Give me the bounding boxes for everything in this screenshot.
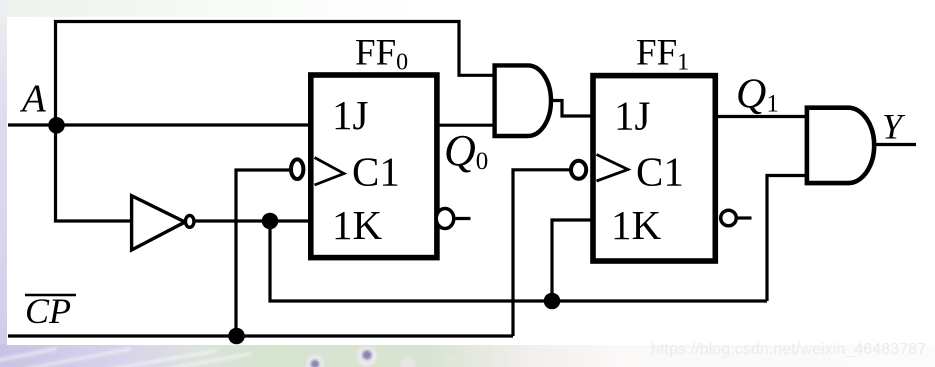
inverter G1: [132, 196, 194, 250]
FF0 clock bubble: [291, 159, 303, 179]
svg-text:1J: 1J: [614, 93, 651, 139]
FF0 inverted output bubble: [436, 209, 454, 229]
node A junction: [48, 117, 65, 134]
wire CP riser to FF1 clock: [513, 170, 571, 336]
wire 1K branch down and across: [270, 221, 767, 301]
label CP with overline: [25, 291, 76, 331]
FF1 clock bubble: [571, 161, 586, 179]
wire FF0 inverted output stub: [454, 217, 471, 220]
svg-text:C1: C1: [636, 149, 684, 195]
svg-text:C1: C1: [352, 149, 400, 195]
flip-flop FF0 box: [311, 75, 437, 258]
node junction on CP line: [228, 328, 245, 345]
node junction on cross line to FF1 1K: [544, 293, 561, 310]
AND gate G2: [495, 65, 551, 136]
svg-text:CP: CP: [25, 291, 71, 331]
wire FF0 Q0 output to AND G2 bottom input: [434, 124, 496, 127]
wire A feedback to AND G2 top input: [56, 22, 497, 126]
wire Y output: [872, 143, 916, 146]
flip-flop FF1 box: [593, 76, 715, 261]
svg-text:https://blog.csdn.net/weixin_4: https://blog.csdn.net/weixin_46483787: [651, 341, 926, 358]
wire FF1 Q1 output to AND G3 top input: [713, 115, 809, 118]
svg-text:A: A: [19, 77, 46, 120]
FF1 clock triangle: [597, 155, 629, 182]
wire AND G2 output to FF1 1J input: [550, 101, 596, 117]
wire CP line: [8, 334, 513, 337]
svg-text:1J: 1J: [332, 92, 369, 138]
wire branch up to AND G3 bottom input: [767, 176, 809, 302]
svg-text:1K: 1K: [611, 202, 662, 248]
FF0 clock triangle: [315, 158, 345, 186]
FF1 inverted output bubble: [721, 210, 737, 226]
wire FF0 clock input: [236, 170, 291, 336]
wire A input line: [8, 123, 314, 126]
wire A to inverter G1 input: [56, 125, 132, 221]
wire inverter G1 output to FF0 1K input: [193, 219, 314, 222]
wire branch up to FF1 1K input: [552, 220, 596, 301]
AND gate G3: [807, 108, 874, 183]
node junction on 1K line: [262, 213, 279, 230]
svg-text:1K: 1K: [332, 202, 383, 248]
wire FF1 inverted output stub: [736, 216, 752, 219]
